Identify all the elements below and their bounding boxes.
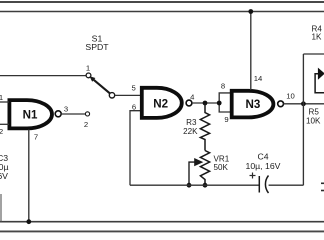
S1 lever arm with arrowhead [89, 76, 95, 82]
svg-text:N1: N1 [23, 108, 38, 121]
junction supply/pin14 [248, 9, 253, 14]
C4 polarity + [250, 175, 256, 177]
junction bracket [217, 101, 222, 106]
svg-text:1K: 1K [312, 33, 323, 42]
svg-text:16V: 16V [0, 171, 8, 181]
N1 output pin 3 wire [61, 113, 85, 115]
svg-text:10K: 10K [306, 116, 321, 125]
capacitor C4 [258, 176, 260, 193]
N3 output pin 10 wire [283, 103, 324, 105]
N1 input pin 2 stub [0, 123, 9, 125]
N3 pin 14 wire from supply [250, 12, 252, 91]
wire: timing net bottom [130, 184, 259, 186]
junction pin10 node [301, 101, 306, 106]
svg-text:R3: R3 [186, 118, 197, 127]
svg-text:N3: N3 [245, 98, 260, 111]
potentiometer VR1 [200, 151, 209, 186]
svg-text:R5: R5 [309, 107, 320, 116]
svg-text:2: 2 [84, 120, 88, 129]
C3 lead (cut off) [0, 194, 2, 222]
NAND gate N2 [142, 88, 182, 118]
N1 output bubble [55, 111, 61, 117]
junction pin4 / R3 [203, 101, 208, 106]
svg-text:1: 1 [86, 64, 90, 73]
svg-text:8: 8 [221, 82, 225, 91]
frame border top [0, 1, 324, 3]
svg-text:7: 7 [34, 133, 38, 142]
svg-text:SPDT: SPDT [85, 42, 109, 52]
svg-text:2: 2 [0, 127, 3, 136]
NAND gate N3 tied inputs bracket [219, 93, 231, 112]
N3 output bubble [278, 101, 284, 107]
NAND gate N1 [9, 100, 52, 128]
svg-text:C4: C4 [257, 151, 268, 161]
frame border bottom [0, 230, 324, 232]
svg-text:9: 9 [224, 115, 228, 124]
svg-text:10µ, 16V: 10µ, 16V [246, 161, 281, 171]
N1 input pin 1 stub [0, 101, 9, 103]
NAND gate N3 [232, 91, 274, 118]
S1 fixed contact terminal 1 [86, 73, 91, 78]
wire: feed to S1 terminal 1 [0, 75, 86, 77]
cut-off marks bottom right [321, 182, 324, 184]
N1 pin 7 wire to ground [28, 130, 30, 222]
junction wiper/bottom wire [187, 183, 192, 188]
svg-text:14: 14 [254, 74, 263, 83]
svg-text:4: 4 [190, 93, 195, 102]
wire: top edge of device box [303, 53, 324, 55]
svg-text:50K: 50K [214, 163, 229, 172]
N2 output bubble [186, 100, 192, 106]
svg-text:10: 10 [286, 92, 295, 101]
S1 moving contact [109, 93, 114, 98]
VR1 wiper arrow [189, 162, 195, 185]
resistor R3 [200, 103, 209, 151]
svg-text:N2: N2 [153, 98, 168, 111]
svg-text:22K: 22K [183, 127, 198, 136]
open terminal 2 [85, 112, 89, 116]
wire: right vertical (node to timing net) [302, 54, 304, 185]
svg-text:1: 1 [0, 93, 3, 102]
junction ground/pin7 [26, 219, 31, 224]
svg-text:3: 3 [64, 104, 68, 113]
device symbol (cut off): loop with arrow [315, 74, 324, 93]
wire: S1 moving contact to N2 pin 5 [115, 94, 141, 96]
junction VR1 bottom [203, 183, 208, 188]
svg-text:5: 5 [131, 84, 135, 93]
N2 output pin 4 wire [192, 102, 219, 104]
wire: bottom ground rail [0, 221, 324, 223]
svg-text:6: 6 [132, 102, 136, 111]
wire: top supply rail [0, 11, 324, 13]
